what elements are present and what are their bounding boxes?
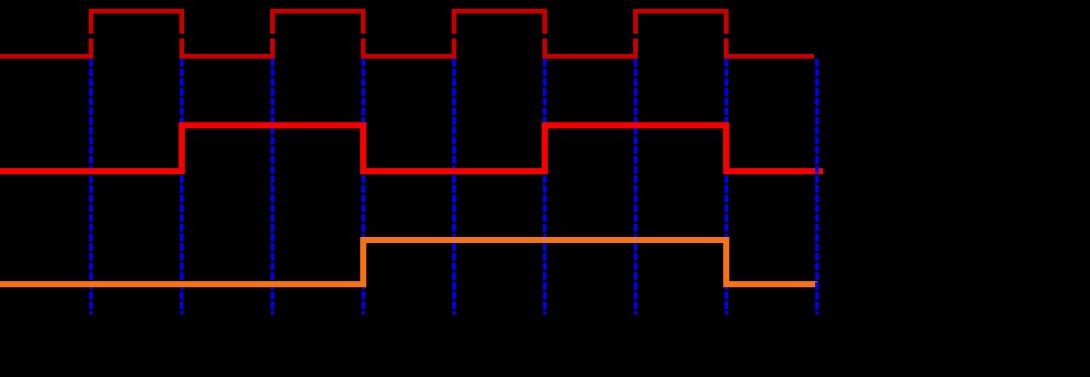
edge marker t6 (543, 59, 547, 315)
edge marker t2 (180, 59, 184, 315)
edge marker t9 (blue dashed, over waveforms) (815, 59, 819, 315)
edge marker t8 (724, 59, 728, 315)
signal CLK: clock waveform (dark red) (0, 11, 814, 56)
edge marker t7 (634, 59, 638, 315)
gaps in CLK vertical edges (88, 34, 730, 39)
edge marker t5 (452, 59, 456, 315)
signal Q0: divide-by-2 waveform (bright red) (0, 125, 823, 171)
edge marker t4 (361, 59, 365, 315)
edge marker t1 (89, 59, 93, 315)
signal Q1: divide-by-4 waveform (orange) (0, 240, 818, 284)
clock edge marker lines (blue dashed), under waveforms (91, 59, 726, 315)
edge marker t3 (271, 59, 275, 315)
